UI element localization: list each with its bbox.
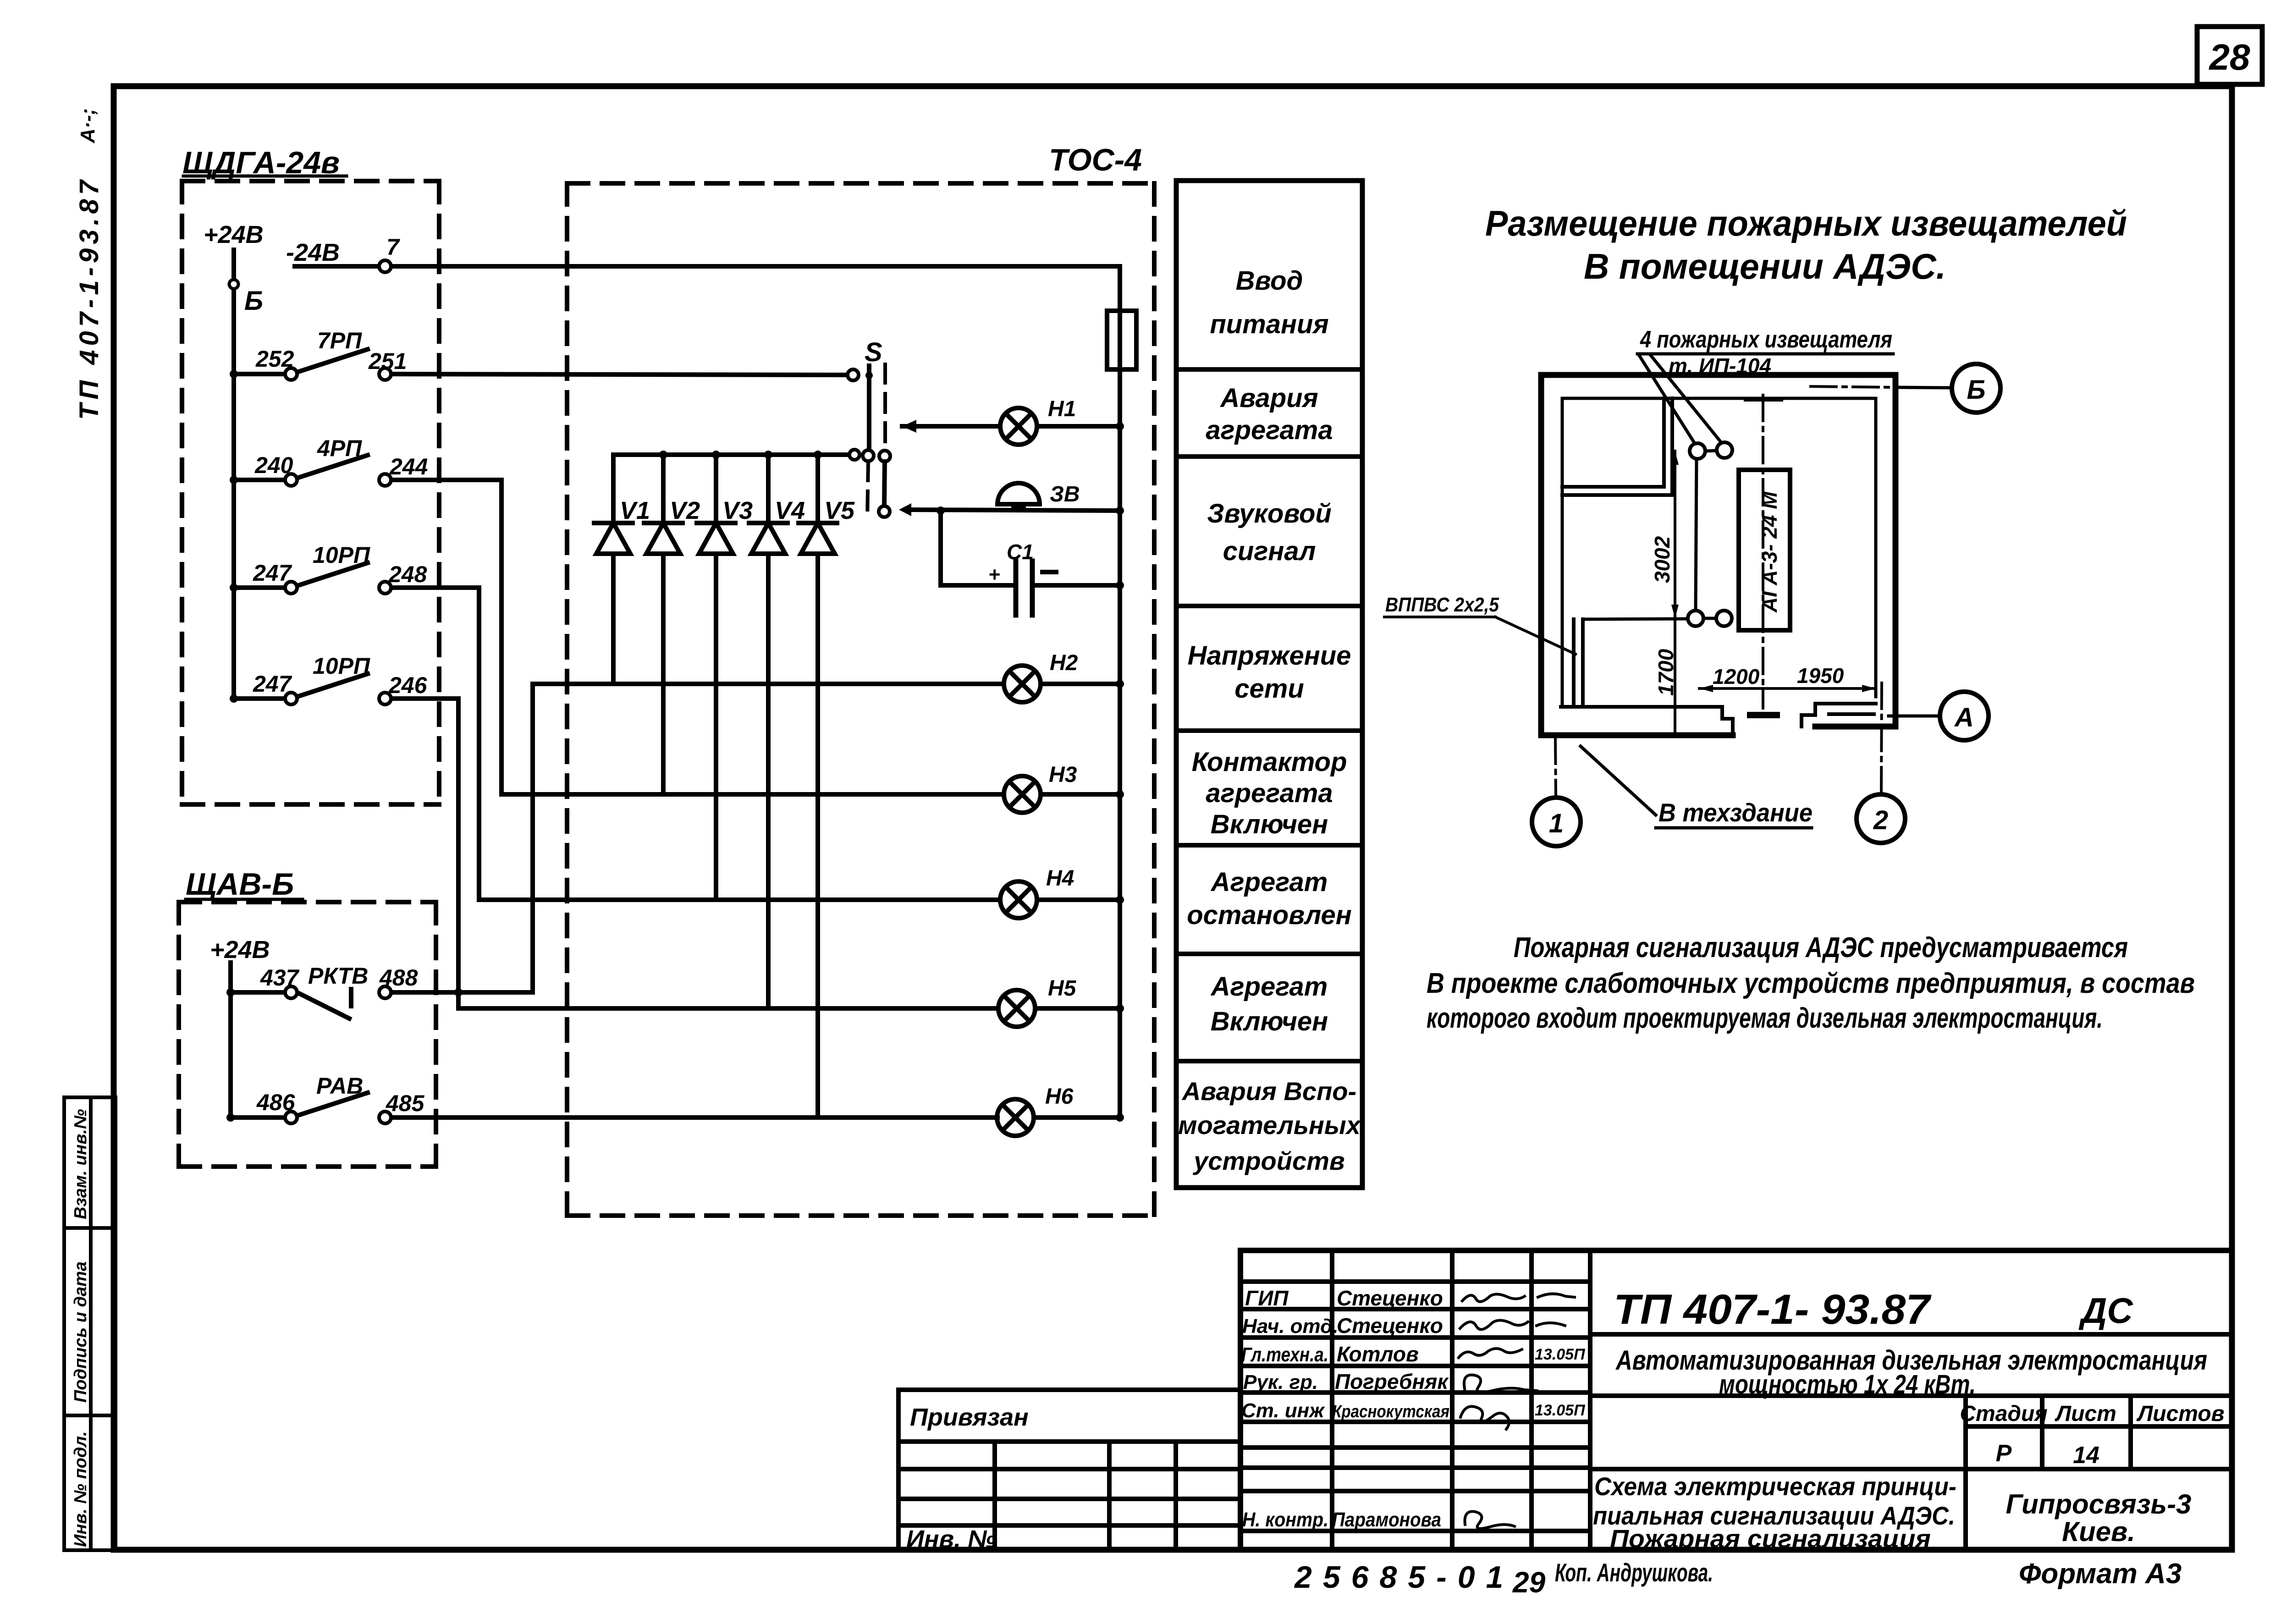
svg-text:437: 437 <box>260 965 300 991</box>
svg-text:Включен: Включен <box>1211 809 1328 839</box>
lamp H2 row <box>533 682 1004 686</box>
svg-text:Гл.техн.а.: Гл.техн.а. <box>1241 1343 1328 1366</box>
bus +24V vertical (SHchAV) <box>228 963 233 1118</box>
svg-text:С1: С1 <box>1007 540 1034 564</box>
svg-text:+24В: +24В <box>210 936 270 963</box>
dimension row 1200 / 1950 <box>1699 687 1876 690</box>
svg-text:4 пожарных извещателя: 4 пожарных извещателя <box>1640 326 1892 353</box>
svg-text:сигнал: сигнал <box>1223 536 1316 566</box>
svg-text:Привязан: Привязан <box>910 1404 1029 1431</box>
wire 488 up to H2 row <box>530 684 535 992</box>
svg-text:ТП 407-1- 93.87: ТП 407-1- 93.87 <box>1614 1286 1932 1333</box>
fire detector IP-104 no.3 <box>1688 611 1703 626</box>
svg-text:S: S <box>865 337 882 367</box>
contact 10RP row (247-248) <box>234 563 479 588</box>
lamp H3 row <box>501 792 1004 797</box>
svg-text:3002: 3002 <box>1650 536 1674 583</box>
signature table columns <box>1330 1250 1334 1550</box>
svg-text:Н4: Н4 <box>1046 866 1074 891</box>
fire detector IP-104 no.4 <box>1716 611 1732 626</box>
svg-text:V1: V1 <box>620 497 650 524</box>
wire -24V row to TOC-4 <box>295 264 1120 269</box>
svg-text:V4: V4 <box>775 497 805 524</box>
svg-text:остановлен: остановлен <box>1187 900 1352 930</box>
svg-text:Ввод: Ввод <box>1236 266 1303 296</box>
axis B circle <box>1952 364 2000 413</box>
dimension 1700 vertical <box>1674 618 1676 733</box>
contact 10RP row (247-246) <box>234 674 458 699</box>
svg-text:247: 247 <box>253 671 292 697</box>
svg-text:В техздание: В техздание <box>1658 798 1813 827</box>
axis 1 circle <box>1532 798 1581 846</box>
svg-text:Н1: Н1 <box>1048 397 1076 421</box>
title block left extension <box>898 1390 1240 1550</box>
svg-text:Включен: Включен <box>1211 1007 1328 1036</box>
svg-text:25685-01: 25685-01 <box>1294 1560 1514 1595</box>
svg-text:10РП: 10РП <box>313 542 370 568</box>
svg-text:Краснокутская: Краснокутская <box>1332 1402 1449 1421</box>
fuse FU <box>1107 311 1136 369</box>
wire from 246 down to H5 row <box>456 699 461 1008</box>
contact RKTV row (437-488) <box>231 989 533 1018</box>
svg-text:252: 252 <box>255 346 294 372</box>
capacitor C1 branch <box>941 511 1012 585</box>
signature table rows <box>1240 1279 1590 1284</box>
node B terminal <box>229 280 238 289</box>
svg-text:Схема электрическая принци-: Схема электрическая принци- <box>1594 1472 1956 1501</box>
svg-text:РАВ: РАВ <box>316 1073 363 1099</box>
genset axis dash-dot <box>1762 395 1764 708</box>
svg-text:ТП 407-1-93.87: ТП 407-1-93.87 <box>74 176 104 420</box>
title block outline <box>1240 1250 2232 1550</box>
svg-text:13.05П: 13.05П <box>1535 1346 1586 1363</box>
svg-text:Стеценко: Стеценко <box>1337 1314 1443 1338</box>
svg-text:4РП: 4РП <box>317 435 362 461</box>
svg-text:устройств: устройств <box>1192 1146 1344 1175</box>
svg-text:+: + <box>988 563 1000 586</box>
svg-text:240: 240 <box>254 452 293 478</box>
svg-text:Пожарная сигнализация АДЭС п: Пожарная сигнализация АДЭС предусматрива… <box>1514 932 2128 963</box>
junction node on 246 wire <box>454 988 463 996</box>
svg-text:Котлов: Котлов <box>1337 1342 1419 1366</box>
svg-text:Б: Б <box>1967 375 1985 405</box>
svg-text:РКТВ: РКТВ <box>308 963 368 989</box>
svg-text:Коп. Андрушкова.: Коп. Андрушкова. <box>1555 1558 1713 1587</box>
inner room partition (top-left) <box>1562 398 1672 495</box>
svg-text:+24В: +24В <box>204 221 264 248</box>
svg-text:V3: V3 <box>722 497 753 524</box>
svg-text:7: 7 <box>386 234 400 260</box>
svg-text:10РП: 10РП <box>313 653 370 679</box>
diode V1 <box>594 455 633 684</box>
svg-text:Листов: Листов <box>2136 1402 2224 1426</box>
svg-text:Рук. гр.: Рук. гр. <box>1243 1371 1318 1393</box>
svg-text:агрегата: агрегата <box>1206 778 1333 808</box>
svg-text:Нач. отд.: Нач. отд. <box>1242 1315 1339 1338</box>
detector connecting line <box>1696 459 1697 611</box>
diode V3 <box>697 455 735 900</box>
svg-text:488: 488 <box>379 965 418 991</box>
svg-text:агрегата: агрегата <box>1206 415 1333 445</box>
svg-text:АГА-3- 24 М: АГА-3- 24 М <box>1758 491 1781 613</box>
svg-text:Агрегат: Агрегат <box>1210 972 1328 1002</box>
svg-text:Подпись и дата: Подпись и дата <box>71 1261 90 1403</box>
door platform (right) <box>1802 704 1876 727</box>
contact 7RP row (252-251) <box>234 349 848 375</box>
svg-text:Н. контр.: Н. контр. <box>1242 1508 1328 1531</box>
buzzer ZV row <box>899 503 911 516</box>
svg-text:V2: V2 <box>670 497 700 524</box>
diode V5 <box>799 455 837 1118</box>
svg-text:Пожарная сигнализация: Пожарная сигнализация <box>1610 1524 1931 1553</box>
svg-text:1950: 1950 <box>1797 664 1844 688</box>
svg-text:1700: 1700 <box>1654 649 1678 696</box>
svg-text:485: 485 <box>386 1090 425 1116</box>
panel SHchDGA-24v dashed box <box>182 181 439 804</box>
extension row line <box>898 1439 1240 1444</box>
cable riser in wall <box>1572 619 1576 705</box>
svg-text:248: 248 <box>388 562 427 587</box>
svg-text:13.05П: 13.05П <box>1535 1402 1586 1419</box>
svg-text:Размещение пожарных извещате: Размещение пожарных извещателей <box>1485 203 2127 243</box>
svg-text:Погребняк: Погребняк <box>1335 1370 1449 1393</box>
svg-text:ГИП: ГИП <box>1245 1286 1289 1310</box>
tie line to wall <box>1583 619 1688 619</box>
svg-text:питания: питания <box>1210 309 1328 339</box>
wire from 244 down to H3 row <box>499 480 504 794</box>
genset AGA-3-24M box <box>1739 470 1790 630</box>
svg-text:Стеценко: Стеценко <box>1337 1286 1443 1310</box>
plan outer walls <box>1541 375 1895 735</box>
bus +24V vertical (SHchDGA) <box>231 250 236 699</box>
svg-text:Инв. № подл.: Инв. № подл. <box>71 1431 90 1547</box>
sheet number box 28 <box>2197 27 2262 84</box>
main supply vertical wire <box>1118 266 1122 1118</box>
svg-text:1200: 1200 <box>1713 665 1760 688</box>
svg-text:ЗВ: ЗВ <box>1050 482 1080 506</box>
svg-text:V5: V5 <box>824 497 855 524</box>
svg-text:Инв. №: Инв. № <box>906 1525 996 1553</box>
diode V4 <box>749 455 788 1008</box>
lamp H5 row <box>458 1006 998 1011</box>
svg-text:Р: Р <box>1996 1440 2012 1467</box>
lamp H4 row <box>479 897 1000 902</box>
svg-text:Гипросвязь-3: Гипросвязь-3 <box>2006 1489 2192 1519</box>
tambour partition (bottom-left) <box>1561 619 1733 735</box>
block TOC-4 dashed box <box>567 183 1154 1216</box>
svg-text:Ст. инж: Ст. инж <box>1241 1399 1325 1422</box>
axis 2 circle <box>1857 794 1905 843</box>
lamp H1 with leads <box>902 424 915 429</box>
svg-text:1: 1 <box>1549 809 1564 838</box>
wire from 248 down to H4 row <box>477 588 481 900</box>
svg-text:Н6: Н6 <box>1045 1085 1074 1109</box>
contact 4RP row (240-244) <box>234 455 501 480</box>
fire detector IP-104 no.1 <box>1690 443 1705 459</box>
svg-text:ТОС-4: ТОС-4 <box>1049 143 1142 177</box>
left margin stamp table <box>64 1097 116 1550</box>
svg-text:-24В: -24В <box>286 239 340 266</box>
svg-text:Контактор: Контактор <box>1192 747 1347 777</box>
svg-text:7РП: 7РП <box>317 328 362 353</box>
svg-text:247: 247 <box>253 560 292 586</box>
svg-text:Киев.: Киев. <box>2062 1516 2135 1547</box>
svg-text:Н3: Н3 <box>1049 763 1077 787</box>
contact RAV row (486-485) <box>231 1093 997 1118</box>
callout leader lines <box>1639 355 1696 446</box>
diode cathode bus <box>613 452 849 457</box>
svg-text:Формат А3: Формат А3 <box>2019 1558 2182 1590</box>
svg-text:Взам. инв.№: Взам. инв.№ <box>71 1109 90 1219</box>
plan inner wall lines <box>1562 398 1876 707</box>
svg-text:251: 251 <box>368 348 407 374</box>
svg-text:29: 29 <box>1512 1566 1546 1599</box>
axis A circle <box>1940 692 1989 740</box>
svg-text:244: 244 <box>389 454 428 479</box>
svg-text:Авария Вспо-: Авария Вспо- <box>1181 1077 1356 1106</box>
svg-text:Напряжение: Напряжение <box>1188 641 1351 671</box>
svg-text:Парамонова: Парамонова <box>1332 1508 1441 1531</box>
svg-text:2: 2 <box>1873 805 1888 835</box>
stadiya list listov section <box>1963 1396 1968 1550</box>
svg-text:Лист: Лист <box>2055 1402 2116 1426</box>
svg-text:могательных: могательных <box>1178 1111 1362 1140</box>
svg-text:В помещении АДЭС.: В помещении АДЭС. <box>1584 246 1946 286</box>
fire detector IP-104 no.2 <box>1717 442 1732 458</box>
svg-text:Б: Б <box>244 286 263 316</box>
svg-text:ВППВС 2х2,5: ВППВС 2х2,5 <box>1385 594 1499 616</box>
buzzer ZV symbol <box>997 483 1040 504</box>
svg-text:А·-;: А·-; <box>77 108 99 143</box>
svg-text:Н5: Н5 <box>1048 976 1077 1001</box>
lamp H6 row <box>997 1099 1034 1136</box>
svg-text:которого входит проектируемая: которого входит проектируемая дизельная … <box>1427 1002 2103 1034</box>
signal label column box <box>1176 181 1362 1188</box>
svg-text:Авария: Авария <box>1219 383 1318 413</box>
svg-text:486: 486 <box>256 1090 296 1115</box>
svg-text:28: 28 <box>2209 37 2250 77</box>
dimension 3002 vertical <box>1674 451 1676 618</box>
svg-text:А: А <box>1954 703 1974 732</box>
drawing name cell <box>1590 1467 1966 1471</box>
diode V2 <box>644 455 683 794</box>
svg-text:Стадия: Стадия <box>1960 1402 2047 1426</box>
svg-text:ЩАВ-Б: ЩАВ-Б <box>186 867 294 902</box>
svg-text:Н2: Н2 <box>1050 651 1078 675</box>
svg-text:Звуковой: Звуковой <box>1207 499 1332 528</box>
panel SHchAV-B dashed box <box>179 902 436 1167</box>
svg-text:14: 14 <box>2073 1442 2099 1469</box>
svg-text:сети: сети <box>1234 674 1304 704</box>
svg-text:ДС: ДС <box>2078 1290 2133 1331</box>
svg-text:Агрегат: Агрегат <box>1210 867 1328 897</box>
svg-text:В проекте слаботочных устройс: В проекте слаботочных устройств предприя… <box>1427 968 2195 999</box>
svg-text:246: 246 <box>388 672 428 698</box>
terminal 7 circle <box>379 260 391 272</box>
